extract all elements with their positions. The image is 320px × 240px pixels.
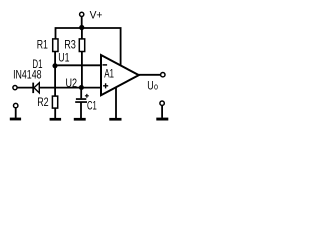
svg-text:R3: R3	[64, 38, 76, 52]
svg-text:o: o	[154, 81, 158, 91]
svg-text:C1: C1	[87, 100, 97, 113]
svg-text:U: U	[147, 79, 153, 93]
svg-text:A1: A1	[104, 68, 114, 81]
svg-text:U1: U1	[58, 51, 69, 65]
svg-text:R2: R2	[37, 97, 49, 109]
svg-text:R1: R1	[37, 38, 48, 52]
svg-text:IN4148: IN4148	[13, 69, 42, 81]
svg-text:U2: U2	[66, 77, 78, 91]
svg-text:V+: V+	[90, 9, 103, 22]
